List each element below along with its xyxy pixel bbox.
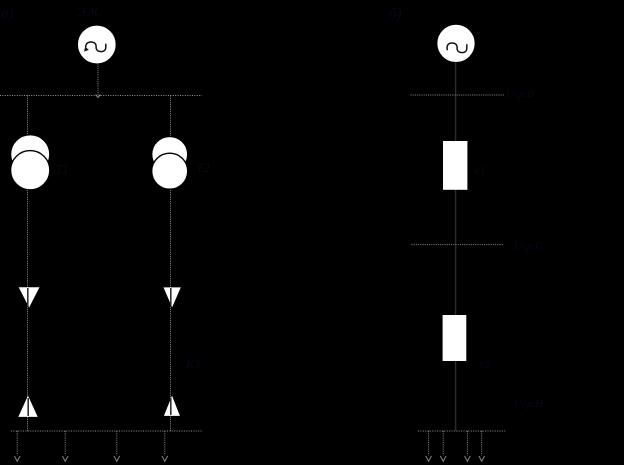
svg-text:Т2: Т2 bbox=[196, 160, 210, 175]
wire: T2 branch (right vertical of left scheme) bbox=[170, 96, 172, 432]
wire: source G1 down to HV busbar bbox=[97, 64, 99, 96]
feeder 3 (equivalent circuit) bbox=[465, 431, 471, 461]
cable arrow W1 up (triangle above LV bus, left branch) bbox=[18, 396, 37, 417]
svg-text:Uср.В: Uср.В bbox=[506, 88, 534, 100]
transformer T1 bbox=[11, 135, 50, 190]
label x1 bbox=[473, 163, 485, 177]
feeder 4 (left scheme) bbox=[162, 431, 168, 461]
label x2 bbox=[478, 357, 490, 371]
wire: main vertical of equivalent circuit bbox=[455, 62, 457, 431]
label b) bbox=[389, 6, 402, 22]
svg-text:Т1: Т1 bbox=[55, 162, 69, 177]
svg-text:ЭЭС: ЭЭС bbox=[77, 4, 103, 19]
feeder 3 (left scheme) bbox=[114, 431, 120, 461]
source G1 (left AC source) bbox=[77, 25, 116, 64]
label Ucp.C bbox=[514, 240, 543, 252]
source ES (equivalent circuit source) bbox=[437, 24, 476, 63]
svg-text:КЗ: КЗ bbox=[185, 357, 200, 371]
transformer T2 bbox=[152, 136, 188, 189]
feeder 1 (left scheme) bbox=[14, 431, 20, 461]
bus: LV busbar (left scheme) bbox=[11, 430, 202, 432]
label Ucp.H bbox=[514, 398, 544, 410]
label a) bbox=[1, 6, 14, 22]
bus: HV busbar (left scheme) bbox=[0, 95, 202, 97]
svg-text:Uср.Н: Uср.Н bbox=[514, 398, 544, 410]
label T1 bbox=[55, 162, 69, 177]
wire: T1 branch (left vertical) bbox=[27, 96, 29, 432]
feeder 2 (left scheme) bbox=[62, 431, 68, 461]
node dash: Ucp.C level bbox=[412, 244, 504, 246]
reactance x2 (rectangle) bbox=[443, 315, 467, 361]
svg-text:б): б) bbox=[389, 6, 402, 22]
junction arrowhead at busbar feed point bbox=[96, 95, 101, 98]
svg-text:х1: х1 bbox=[473, 163, 485, 177]
cable arrow W2 up (triangle above LV bus, right branch) bbox=[164, 396, 180, 416]
label T2 bbox=[196, 160, 210, 175]
label K3 (fault point) bbox=[185, 357, 200, 371]
node dash: Ucp.B level bbox=[411, 94, 504, 96]
feeder 1 (equivalent circuit) bbox=[426, 431, 432, 461]
reactance x1 (rectangle) bbox=[443, 141, 467, 190]
label EES (system) bbox=[77, 4, 103, 19]
svg-text:а): а) bbox=[1, 6, 14, 22]
bus: LV busbar (equivalent circuit) bbox=[418, 430, 506, 432]
feeder 2 (equivalent circuit) bbox=[440, 431, 446, 461]
svg-text:Uср.С: Uср.С bbox=[514, 240, 543, 252]
cable arrow W1 down (triangle on T1 branch) bbox=[19, 287, 40, 307]
feeder 4 (equivalent circuit) bbox=[479, 431, 485, 461]
label Ucp.B bbox=[506, 88, 534, 100]
cable arrow W2 down (triangle on T2 branch) bbox=[164, 287, 181, 307]
svg-text:х2: х2 bbox=[478, 357, 490, 371]
